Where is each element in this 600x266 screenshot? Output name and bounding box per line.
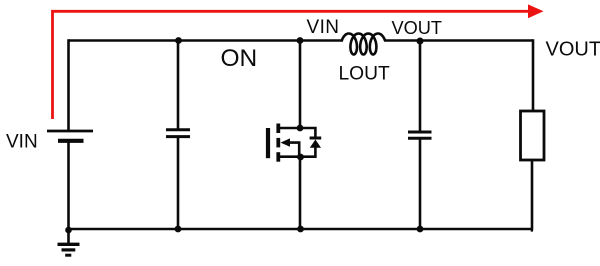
wire: input cap bottom lead: [177, 137, 180, 230]
wire: top rail right: [384, 39, 533, 42]
inductor LOUT coil: [342, 34, 385, 55]
wire: bottom rail: [69, 228, 534, 231]
transistor Q1 (N-MOSFET): [268, 124, 300, 162]
source lead: [280, 155, 300, 158]
wire: output cap bottom lead: [419, 138, 422, 230]
junction node: VOUT/COUT top: [417, 38, 424, 45]
junction node: rail/CIN top: [175, 37, 182, 44]
capacitor CIN: [166, 130, 190, 137]
junction node: MOSFET source bottom: [297, 226, 304, 233]
junction node: ground corner: [65, 227, 72, 234]
wire: output cap top lead: [419, 39, 422, 131]
wire: left wire bottom (battery - to bottom rail): [67, 141, 70, 230]
wire: input cap top lead: [177, 39, 180, 129]
ground: [58, 229, 80, 255]
junction node: COUT bottom: [417, 226, 424, 233]
red arrowhead: [528, 4, 544, 18]
drain lead: [280, 127, 300, 130]
svg-text:ON: ON: [221, 45, 258, 72]
junction node: MOSFET drain / diode top: [297, 125, 304, 132]
battery VIN: [47, 131, 93, 141]
wire: load bottom to bottom rail: [532, 160, 533, 230]
body diode D1: [300, 128, 315, 157]
svg-text:VOUT: VOUT: [392, 18, 443, 38]
wire: right drop to load: [532, 39, 535, 111]
diode triangle: [310, 140, 321, 148]
wire: top rail left: [69, 39, 344, 42]
wire: MOSFET source to bottom rail: [299, 157, 302, 230]
gate bar: [266, 128, 270, 158]
junction node: MOSFET source / diode bottom: [297, 154, 304, 161]
diode cathode bar: [310, 137, 322, 140]
wire: left wire top (rail to battery +): [67, 39, 70, 131]
channel stub source: [276, 152, 280, 162]
red current-flow arrow: [53, 11, 530, 119]
svg-text:VIN: VIN: [6, 132, 38, 153]
capacitor COUT: [408, 132, 432, 138]
svg-text:VIN: VIN: [307, 17, 340, 38]
body lead: [287, 143, 299, 157]
svg-text:LOUT: LOUT: [339, 64, 390, 85]
channel stub drain: [276, 124, 280, 134]
junction node: switch node top: [297, 37, 304, 44]
wire: switch-node drop (rail to MOSFET drain): [299, 39, 302, 128]
junction node: CIN bottom: [175, 226, 182, 233]
svg-text:VOUT: VOUT: [546, 39, 600, 61]
resistor RLOAD: [521, 111, 545, 160]
channel stub body: [276, 138, 280, 148]
MOSFET arrow: [281, 138, 291, 146]
